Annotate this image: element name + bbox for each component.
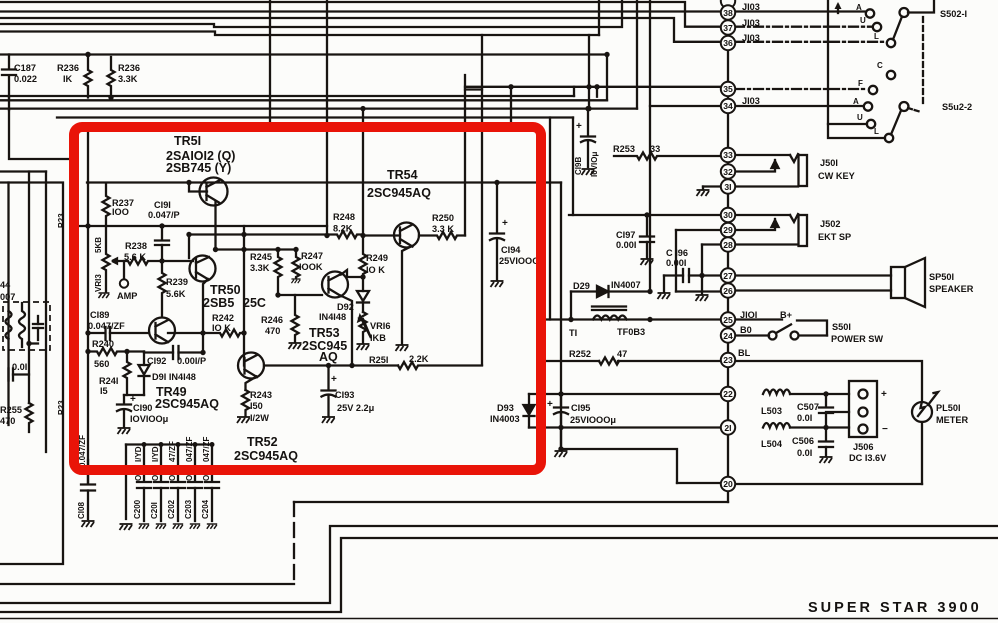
svg-text:560: 560: [94, 359, 109, 369]
jack J501 CW KEY: [772, 154, 808, 186]
svg-text:J50I: J50I: [820, 158, 838, 168]
potentiometer VR16 1KB: [360, 312, 367, 343]
wire page border bottom: [0, 618, 998, 620]
svg-text:TI: TI: [569, 328, 577, 338]
ground VR16: [357, 344, 370, 350]
capacitor bank rail: [126, 443, 212, 445]
svg-text:IN4I48: IN4I48: [319, 312, 346, 322]
svg-text:32: 32: [723, 167, 733, 177]
ground R247: [291, 279, 300, 283]
capacitor C196 0.001: [683, 269, 689, 282]
svg-text:JIOI: JIOI: [740, 310, 757, 320]
svg-text:IOOK: IOOK: [299, 262, 323, 272]
svg-text:TR54: TR54: [387, 168, 418, 182]
capacitor C204: [205, 445, 219, 522]
svg-text:CI95: CI95: [571, 403, 590, 413]
svg-text:I/YD: I/YD: [151, 446, 160, 462]
ground pin31: [703, 185, 721, 187]
wire left inner vertical x88 down to C108: [87, 183, 89, 484]
svg-text:−: −: [882, 424, 888, 435]
svg-text:29: 29: [723, 225, 733, 235]
svg-text:0.022: 0.022: [14, 74, 37, 84]
wire rail y427 to pin21: [529, 426, 721, 428]
wire rail y96.7: [0, 95, 574, 97]
svg-text:C506: C506: [792, 436, 814, 446]
svg-text:3.3K: 3.3K: [250, 263, 270, 273]
svg-text:22: 22: [723, 389, 733, 399]
ground R243: [237, 417, 250, 423]
svg-text:C187: C187: [14, 63, 36, 73]
wire S502-1 pivot to top edge: [908, 0, 934, 13]
transformer T1 TF083: [592, 307, 627, 320]
svg-text:PL50I: PL50I: [936, 403, 961, 413]
ground C194: [491, 281, 504, 287]
svg-text:L504: L504: [761, 439, 783, 449]
resistor R248 8.2K on TR50-collector rail: [189, 231, 363, 238]
terminal AMP: [123, 261, 125, 279]
svg-text:2SC945AQ: 2SC945AQ: [155, 397, 219, 411]
svg-text:L: L: [874, 32, 879, 41]
svg-text:IO K: IO K: [366, 265, 385, 275]
svg-text:CI9B: CI9B: [574, 157, 583, 175]
wire vertical x607: [606, 55, 608, 101]
diode D93 1N4003: [524, 394, 535, 428]
capacitor C187: [2, 55, 16, 98]
resistor R241 15: [124, 352, 131, 396]
svg-text:R245: R245: [250, 252, 272, 262]
svg-text:CI93: CI93: [335, 390, 354, 400]
capacitor C507 0.01: [819, 394, 833, 428]
svg-text:20: 20: [723, 479, 733, 489]
svg-text:25VIOOO: 25VIOOO: [499, 256, 539, 266]
resistor R238 5.6K: [117, 258, 162, 265]
svg-text:L: L: [874, 127, 879, 136]
svg-text:C I96: C I96: [666, 248, 688, 258]
wire B+ rail y394 to pin22: [529, 393, 721, 395]
wire J502 sleeve from pin29: [731, 219, 775, 230]
svg-text:IOO: IOO: [112, 207, 129, 217]
svg-text:36: 36: [723, 38, 733, 48]
svg-text:047/ZF: 047/ZF: [185, 437, 194, 462]
svg-text:R24I: R24I: [99, 376, 118, 386]
svg-text:I5: I5: [100, 386, 108, 396]
junction dots inside box: [85, 180, 499, 368]
wire staircase B: [0, 526, 998, 603]
svg-text:R246: R246: [261, 315, 283, 325]
wire rail y171 to verticals x29 x46: [0, 170, 46, 172]
coil L503: [763, 390, 790, 395]
svg-text:SPEAKER: SPEAKER: [929, 284, 974, 294]
svg-text:C507: C507: [797, 402, 819, 412]
svg-text:R239: R239: [166, 277, 188, 287]
svg-text:IN4003: IN4003: [490, 414, 520, 424]
svg-text:VRI3: VRI3: [94, 274, 103, 292]
svg-text:33: 33: [650, 144, 660, 154]
svg-text:C204: C204: [201, 499, 210, 519]
wire pin36 row to contact L dash-dot: [735, 41, 886, 43]
potentiometer VR13 5KB: [103, 226, 110, 292]
wire top exit x622: [0, 0, 622, 27]
wire vertical x244 down to TR52: [243, 226, 245, 366]
svg-text:JI03: JI03: [742, 33, 760, 43]
capacitor C506 0.01: [819, 428, 833, 457]
wire rail y226: [79, 225, 327, 227]
wire speaker from pin27: [731, 274, 891, 276]
wire C196 bracket: [664, 230, 722, 294]
wire BL rail y361 through R252 to meter riser: [545, 360, 599, 362]
wire vertical x465 into box to R250: [464, 75, 466, 236]
svg-text:TR5I: TR5I: [174, 134, 201, 148]
wire vertical drop x571 to pin30 row: [572, 118, 574, 216]
wire arrow on pin38 line: [837, 5, 839, 13]
wire pin37 row to contact U dash-dot: [735, 26, 872, 28]
capacitor 0.01: [9, 369, 30, 381]
ground C193: [322, 417, 335, 423]
dashed filter box: [3, 302, 50, 350]
wire staircase A bottom to left edge: [0, 583, 294, 585]
svg-text:F: F: [858, 79, 863, 88]
wire main B+ rail y182 from box-left down-step to exit right: [87, 131, 89, 183]
junction dot: [26, 341, 31, 346]
capacitor C190 10V100u: [117, 395, 144, 427]
wire T1 rail y319: [545, 318, 721, 320]
wire staircase to pin 36: [0, 18, 721, 42]
svg-text:D9I IN4I48: D9I IN4I48: [152, 372, 196, 382]
svg-text:B0: B0: [740, 325, 752, 335]
svg-text:25VIOOOμ: 25VIOOOμ: [570, 415, 616, 425]
svg-text:3I: 3I: [724, 182, 731, 192]
svg-text:R253: R253: [613, 144, 635, 154]
svg-text:+: +: [881, 389, 887, 400]
capacitor C192 0.001/P: [144, 346, 203, 359]
svg-text:R23: R23: [57, 213, 66, 228]
svg-text:D92: D92: [337, 302, 354, 312]
svg-text:TF0B3: TF0B3: [617, 327, 645, 337]
wire J502 body bottom from pin28: [731, 243, 798, 245]
wire vertical x270 into red box: [269, 0, 271, 125]
svg-text:POWER SW: POWER SW: [831, 334, 883, 344]
svg-text:R250: R250: [432, 213, 454, 223]
svg-text:R247: R247: [301, 251, 323, 261]
svg-text:R249: R249: [366, 253, 388, 263]
svg-text:44: 44: [0, 280, 11, 290]
transistor TR50 2SB5/25C: [162, 235, 216, 353]
svg-text:IK: IK: [63, 74, 73, 84]
svg-text:0.0I: 0.0I: [797, 413, 812, 423]
wire rail y31 to x589 drop: [0, 32, 599, 36]
svg-text:23: 23: [723, 355, 733, 365]
svg-text:0.00I: 0.00I: [616, 240, 636, 250]
svg-text:2I: 2I: [724, 423, 731, 433]
svg-text:SUPER STAR 3900: SUPER STAR 3900: [808, 600, 982, 616]
svg-text:R242: R242: [212, 313, 234, 323]
resistor R251 2.2K: [398, 362, 482, 369]
ground C190: [118, 428, 131, 434]
svg-text:S5u2-2: S5u2-2: [942, 102, 972, 112]
diode D91 1N4148: [139, 352, 150, 396]
capacitor C193 25V2.2u: [322, 366, 336, 417]
svg-text:CW KEY: CW KEY: [818, 171, 855, 181]
transistor TR49 2SC945AQ: [149, 318, 175, 344]
wire J502 tip from pin30: [731, 214, 790, 216]
svg-text:33: 33: [723, 150, 733, 160]
svg-text:0.047/P: 0.047/P: [148, 210, 180, 220]
junction dots top: [85, 52, 90, 57]
wire S501 from pin24: [734, 334, 769, 336]
wire TR53 base rail y295: [278, 294, 322, 296]
wire cap bank left drop: [125, 445, 127, 520]
wire speaker from pin26: [731, 289, 891, 291]
wire pin35 row: [465, 86, 721, 88]
svg-text:CI94: CI94: [501, 245, 521, 255]
svg-text:J502: J502: [820, 219, 840, 229]
svg-text:5KB: 5KB: [94, 237, 103, 253]
ground TR54 emitter: [396, 345, 409, 351]
svg-text:L503: L503: [761, 406, 782, 416]
wire ground rail y449 to pin20 loop: [561, 449, 677, 483]
svg-text:C200: C200: [133, 499, 142, 519]
svg-text:470: 470: [0, 416, 15, 426]
svg-text:EKT SP: EKT SP: [818, 232, 851, 242]
wire left L to red box: [9, 98, 70, 160]
wire C108 lead: [87, 460, 89, 484]
wire meter bottom loop from pin20: [734, 483, 922, 485]
coil L (right): [19, 303, 25, 347]
resistor R245 3.3K: [275, 250, 282, 296]
svg-text:3.3 K: 3.3 K: [432, 224, 454, 234]
svg-text:007: 007: [0, 292, 15, 302]
svg-text:R243: R243: [250, 390, 272, 400]
capacitor C203: [188, 445, 202, 522]
resistor R243 150 1/2W: [242, 390, 249, 416]
wire J101 B+ from pin25: [734, 318, 782, 320]
svg-text:D93: D93: [497, 403, 514, 413]
junction dot R236 top: [85, 52, 90, 57]
junction dots right: [699, 273, 828, 430]
svg-text:5.6 K: 5.6 K: [124, 252, 146, 262]
wire vertical x511 stub: [510, 87, 512, 124]
svg-text:R240: R240: [92, 339, 114, 349]
transistor TR53 2SC945AQ: [322, 270, 363, 366]
svg-text:DC I3.6V: DC I3.6V: [849, 453, 887, 463]
svg-text:2SC945AQ: 2SC945AQ: [367, 186, 431, 200]
wire J506 middle pin: [826, 411, 849, 413]
resistor R252 47: [599, 358, 619, 365]
svg-text:U: U: [857, 113, 863, 122]
resistor R250 3.3K: [419, 232, 465, 239]
meter PL501: [912, 392, 938, 422]
transistor TR52 2SC945AQ: [238, 353, 264, 391]
coil L504: [763, 423, 790, 428]
svg-text:JI03: JI03: [742, 2, 760, 12]
svg-text:SP50I: SP50I: [929, 272, 954, 282]
svg-text:+: +: [331, 374, 337, 385]
svg-text:0.0I: 0.0I: [797, 448, 812, 458]
svg-text:3.3K: 3.3K: [118, 74, 138, 84]
svg-text:R252: R252: [569, 349, 591, 359]
resistor R240 560: [88, 348, 144, 355]
svg-text:CI9I: CI9I: [154, 200, 171, 210]
svg-text:47: 47: [617, 349, 627, 359]
resistor R236 3.3K: [108, 57, 115, 98]
wire bridge x465-x482: [465, 88, 482, 90]
ground C198: [582, 169, 595, 175]
svg-text:25V 2.2μ: 25V 2.2μ: [337, 403, 375, 413]
wire staircase A dashed vertical: [293, 502, 295, 584]
svg-text:25: 25: [723, 315, 733, 325]
svg-text:26: 26: [723, 286, 733, 296]
resistor R242 10K: [175, 330, 244, 337]
wire rail y182 exit to vertical x561: [560, 183, 562, 450]
svg-text:I50: I50: [250, 401, 263, 411]
wire L504 to J506: [790, 426, 849, 428]
svg-text:R238: R238: [125, 241, 147, 251]
svg-text:U: U: [860, 16, 866, 25]
pin 39 (top edge): [721, 0, 735, 8]
coil L (left): [6, 311, 12, 339]
trimmer capacitor in box: [29, 316, 43, 344]
wire vertical x327 to R248 node: [326, 0, 328, 235]
capacitor C200: [137, 445, 151, 522]
wire vertical x482 riser to R251: [481, 35, 483, 365]
svg-text:CI97: CI97: [616, 230, 635, 240]
switch S501 POWER SW: [769, 325, 799, 340]
jack J502 EXT SP: [772, 214, 808, 246]
svg-text:CI92: CI92: [147, 356, 166, 366]
svg-text:0.0I: 0.0I: [12, 362, 27, 372]
resistor R253 33: [614, 153, 721, 160]
svg-text:R23: R23: [57, 400, 66, 415]
wire vertical x363 junction to R248 right node: [362, 109, 364, 235]
svg-text:A: A: [853, 97, 859, 106]
svg-text:C202: C202: [167, 499, 176, 519]
ground C195: [555, 451, 568, 457]
svg-text:IN4007: IN4007: [611, 280, 641, 290]
wire pin30 rail y215: [569, 214, 721, 216]
resistor R249 10K: [360, 236, 367, 278]
wire TR49 rail y333: [88, 332, 105, 334]
wire J501 tip from pin33: [731, 154, 790, 156]
svg-text:5.6K: 5.6K: [166, 289, 186, 299]
svg-text:B+: B+: [780, 310, 792, 320]
svg-text:38: 38: [723, 8, 733, 18]
wire rail y248 TR51-emitter to R247: [216, 248, 297, 250]
wire pin34 row to contact A: [735, 105, 862, 107]
svg-text:R236: R236: [57, 63, 79, 73]
capacitor C202: [171, 445, 185, 522]
svg-text:CI08: CI08: [77, 502, 86, 519]
wire rail y117: [57, 116, 573, 118]
junction dots mid: [558, 212, 652, 451]
svg-text:BL: BL: [738, 348, 751, 358]
svg-text:0.00I/P: 0.00I/P: [177, 356, 206, 366]
wire pin20 drop to staircase: [294, 501, 728, 503]
switch S502-1: [866, 8, 923, 103]
svg-text:C20I: C20I: [150, 502, 159, 519]
connector J506 DC13.6V: [849, 381, 877, 437]
svg-text:2SB5: 2SB5: [203, 296, 234, 310]
svg-text:34: 34: [723, 101, 733, 111]
capacitor C108: [81, 485, 95, 520]
svg-text:D29: D29: [573, 281, 590, 291]
capacitor C198 16V10u: [581, 109, 595, 167]
svg-text:24: 24: [723, 331, 733, 341]
speaker SP501: [891, 258, 925, 307]
svg-text:+: +: [502, 218, 508, 229]
red highlight box: [74, 127, 541, 470]
wire pin35 row to contact F dash-dot: [735, 88, 868, 90]
svg-text:R255: R255: [0, 405, 22, 415]
transistor TR54 2SC945AQ: [363, 223, 419, 345]
switch S502-2: [828, 0, 921, 142]
svg-text:37: 37: [723, 23, 733, 33]
capacitor C191 0.047/P: [155, 226, 169, 261]
svg-text:CI90: CI90: [133, 403, 152, 413]
svg-text:0.047/ZF: 0.047/ZF: [78, 435, 87, 467]
svg-text:IKB: IKB: [370, 333, 386, 343]
wire J501 body bottom from pin31: [731, 185, 798, 187]
wire L503 to J506: [790, 393, 849, 395]
svg-text:AQ: AQ: [319, 350, 338, 364]
wire vertical x597: [596, 87, 598, 97]
svg-text:R248: R248: [333, 212, 355, 222]
connector circles pins 39-20: [721, 0, 735, 491]
svg-text:J506: J506: [853, 442, 873, 452]
svg-text:METER: METER: [936, 415, 969, 425]
svg-text:30: 30: [723, 210, 733, 220]
capacitor C195 25V1000u: [554, 394, 568, 449]
resistor R236 1K: [85, 55, 92, 98]
wire rail y182 to vertical x63 down to bottom staircase: [0, 183, 63, 565]
svg-text:047/ZF: 047/ZF: [202, 437, 211, 462]
svg-text:TR50: TR50: [210, 283, 241, 297]
wire rail y108.6: [0, 107, 637, 109]
svg-text:TR52: TR52: [247, 435, 278, 449]
svg-text:I/YD: I/YD: [134, 446, 143, 462]
resistor R239 5.6K: [159, 261, 166, 317]
svg-text:R236: R236: [118, 63, 140, 73]
svg-text:0.047/ZF: 0.047/ZF: [88, 321, 125, 331]
svg-text:+: +: [576, 121, 582, 132]
capacitor C189 0.047/ZF: [106, 327, 150, 340]
svg-text:S50I: S50I: [832, 322, 851, 332]
svg-text:28: 28: [723, 240, 733, 250]
wire vertical x637 from top: [636, 0, 638, 109]
resistor R247 100K: [293, 250, 300, 279]
svg-text:JI03: JI03: [742, 18, 760, 28]
diode D29 1N4007: [571, 286, 650, 320]
wire main connector bus vertical: [727, 0, 729, 502]
svg-text:+: +: [547, 399, 553, 410]
wire staircase C: [0, 538, 998, 612]
pin numbers 38-20: [723, 8, 733, 489]
svg-text:2SC945AQ: 2SC945AQ: [234, 449, 298, 463]
svg-text:C203: C203: [184, 499, 193, 519]
ground R246: [289, 343, 302, 349]
wire TR52 output rail y365 with riser x482: [264, 364, 398, 366]
svg-text:S502-I: S502-I: [940, 9, 967, 19]
capacitor C194 25V1000: [490, 183, 504, 281]
wire top rail y54: [0, 53, 607, 55]
svg-text:JI03: JI03: [742, 96, 760, 106]
wire bus line A staircase to pin 37: [0, 2, 721, 27]
wire J501 sleeve from pin32: [731, 160, 775, 172]
svg-text:470: 470: [265, 326, 280, 336]
svg-text:R25I: R25I: [369, 355, 388, 365]
svg-text:25C: 25C: [243, 296, 266, 310]
wire to S502-1 contact A through pin 38: [0, 10, 866, 12]
resistor R255 470: [26, 403, 33, 432]
